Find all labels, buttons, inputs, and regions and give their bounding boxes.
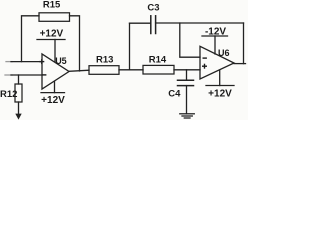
svg-text:C3: C3 <box>147 3 159 14</box>
+12V supply bottom of U6 <box>206 70 234 99</box>
wire R15 left down to + input node <box>22 16 40 62</box>
op-amp U6 <box>200 46 234 79</box>
svg-text:R13: R13 <box>96 54 113 65</box>
wire R13 to R14 <box>119 69 143 71</box>
+12V supply bottom of U5 <box>41 82 65 107</box>
arrow to ground below R12 <box>15 102 21 120</box>
resistor R13 <box>89 54 119 74</box>
svg-text:+12V: +12V <box>40 29 64 40</box>
wire U6 output <box>234 63 246 65</box>
capacitor C4 <box>168 70 193 100</box>
wire R15 right down to U5 output <box>70 16 80 71</box>
svg-text:+12V: +12V <box>208 89 232 100</box>
resistor R14 <box>143 54 174 74</box>
-12V supply top of U6 <box>202 26 228 54</box>
wire top node down to U6 - input <box>180 23 200 57</box>
op-amp U5 <box>39 54 69 89</box>
svg-text:R12: R12 <box>0 89 17 100</box>
resistor R12 <box>0 75 22 102</box>
wire U5 output to R13 <box>69 70 89 71</box>
svg-text:R14: R14 <box>149 54 167 65</box>
wire C3 right to feedback corner <box>156 22 244 24</box>
+12V supply top of U5 <box>37 29 65 62</box>
svg-text:U5: U5 <box>55 56 67 66</box>
svg-text:C4: C4 <box>168 89 181 100</box>
wire R14 to U6 + input <box>174 69 200 71</box>
feedback wire down to output <box>243 23 245 64</box>
svg-text:+12V: +12V <box>41 95 65 106</box>
svg-text:R15: R15 <box>43 0 61 11</box>
ground below C4 <box>180 86 195 118</box>
resistor R15 <box>39 0 70 21</box>
capacitor C3 <box>130 3 160 34</box>
wire input to U5 - input <box>5 74 42 76</box>
svg-text:U6: U6 <box>218 48 230 58</box>
wire input to U5 + input <box>6 61 42 63</box>
node vertical up to C3 <box>129 23 131 70</box>
